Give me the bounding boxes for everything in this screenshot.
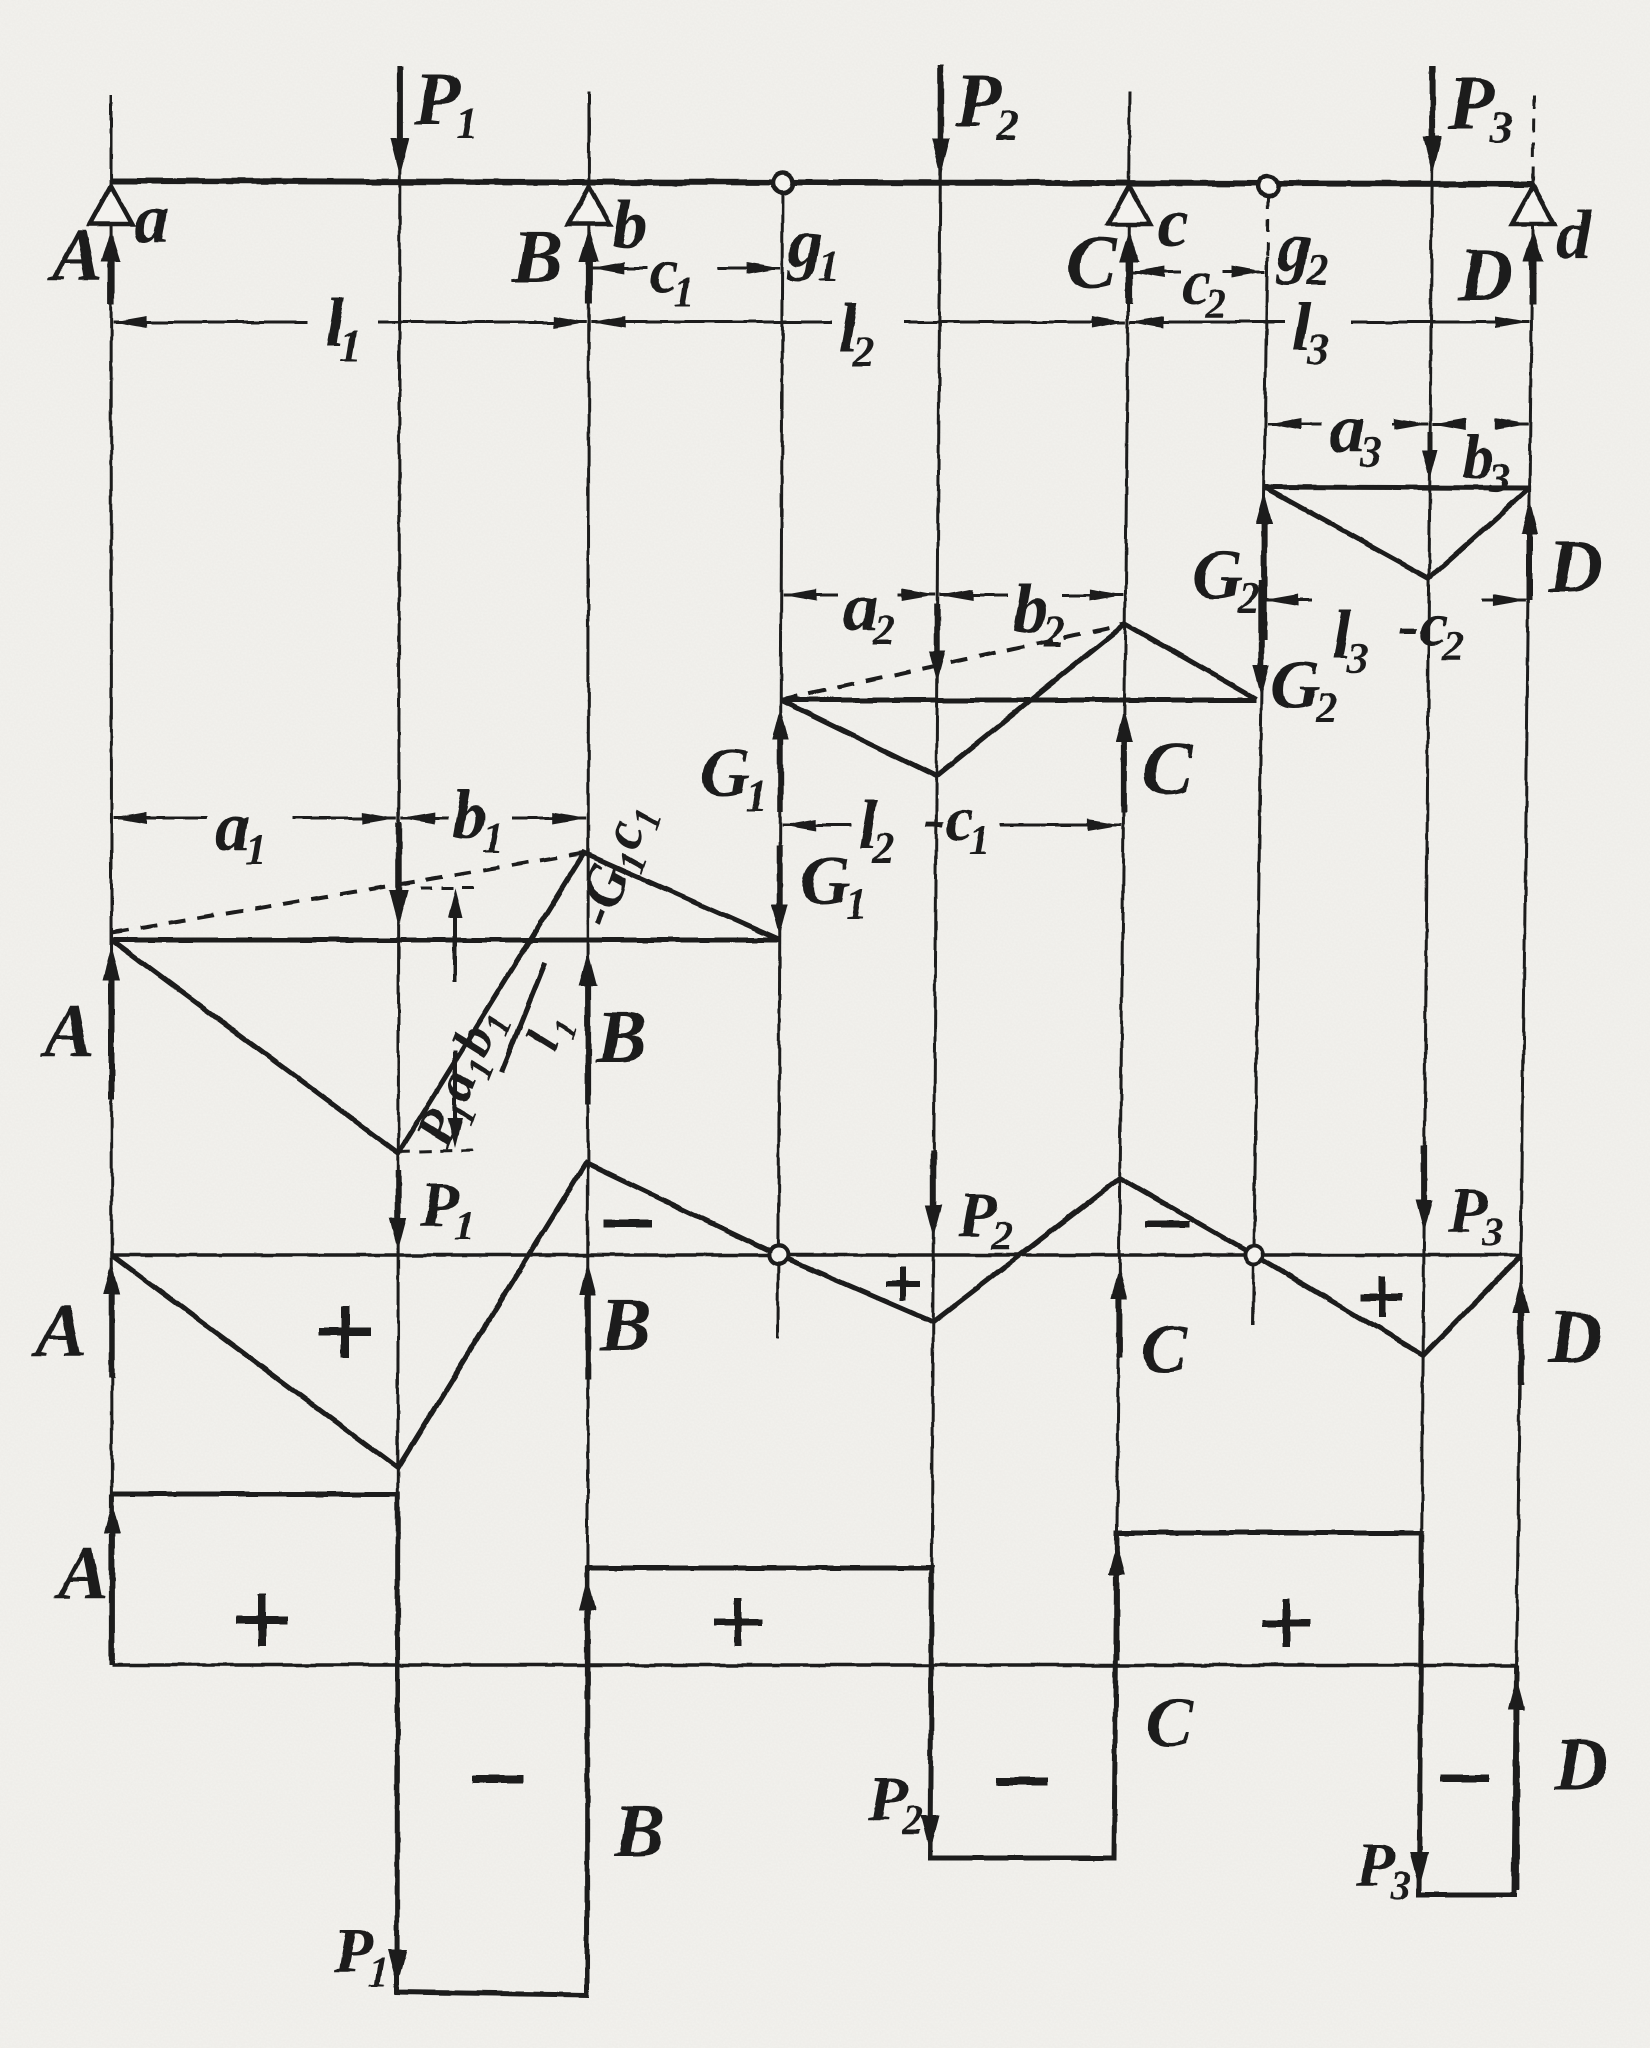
label D (1457, 233, 1513, 317)
label B shear (613, 1789, 665, 1873)
label A moment (32, 1289, 87, 1373)
label c (1158, 185, 1189, 262)
construction line g2 (dashed below hinge) (1253, 196, 1268, 1325)
load G2 down on span 2 (1253, 580, 1270, 697)
dimension l2-c1 (782, 783, 1121, 872)
sign - shear3 (1441, 1775, 1489, 1782)
svg-text:B: B (613, 1789, 665, 1873)
dimension c2 (1130, 247, 1265, 328)
reaction D on span 3 (1521, 500, 1538, 600)
load P3 moment (1416, 1145, 1503, 1256)
svg-text:C: C (1066, 221, 1118, 305)
label G1 left (700, 735, 768, 820)
svg-text:b: b (612, 187, 647, 264)
label D span3 (1547, 525, 1603, 609)
load P3 shear (1355, 1829, 1429, 1910)
svg-text:D: D (1547, 1295, 1603, 1379)
hinge g2 (1258, 176, 1278, 196)
span 3 moment triangle (1264, 487, 1530, 578)
svg-text:D: D (1457, 233, 1513, 317)
label C moment (1141, 1311, 1189, 1388)
sign + P3 moment (1361, 1276, 1403, 1318)
load P2 moment (925, 1150, 1013, 1260)
dimension l1 (113, 285, 587, 370)
load P2 (931, 59, 1019, 176)
construction line B (587, 92, 589, 1995)
reaction A moment (103, 1262, 120, 1378)
sign - C moment (1145, 1221, 1189, 1228)
sign + P2 moment (886, 1267, 920, 1301)
label C span2 (1142, 727, 1194, 811)
label b (612, 187, 647, 264)
label G2 right (1270, 647, 1338, 732)
label g2 (1275, 209, 1329, 294)
moment baseline (112, 1253, 1521, 1257)
dimension a2 (783, 569, 936, 654)
span 1 moment diagram (112, 853, 780, 1153)
load P1 (390, 57, 478, 176)
svg-text:C: C (1146, 1685, 1194, 1762)
dimension c1 (591, 235, 781, 316)
hinge g1 (773, 173, 793, 193)
label a (134, 181, 169, 258)
reaction C on span 2 (1116, 710, 1133, 812)
reaction C shear (1108, 1543, 1125, 1660)
load G1 down on span 1 (771, 845, 788, 936)
span 3 beam (1264, 487, 1530, 488)
span 2 closing line (dashed) (781, 624, 1125, 700)
reaction D moment (1512, 1280, 1529, 1385)
label D moment (1547, 1295, 1603, 1379)
svg-text:A: A (48, 213, 103, 297)
support D (1512, 186, 1554, 304)
label C shear (1146, 1685, 1194, 1762)
label B moment (599, 1283, 651, 1367)
svg-text:A: A (32, 1289, 87, 1373)
span 2 beam (781, 698, 1256, 703)
reaction B on span 1 (579, 952, 597, 1105)
svg-text:C: C (1142, 727, 1194, 811)
dimension a1 (114, 789, 397, 874)
peak label -G1c1 (561, 793, 671, 937)
span 2 moment diagram (781, 624, 1256, 776)
svg-text:B: B (599, 1283, 651, 1367)
reaction G1 up on span 2 (772, 708, 789, 812)
label B span1 (595, 995, 647, 1079)
svg-text:D: D (1547, 525, 1603, 609)
sign + shear3 (1262, 1599, 1310, 1647)
dimension l3-c2 (1265, 589, 1527, 682)
label A span1 (40, 989, 95, 1073)
shear left edge A (109, 1494, 114, 1665)
label B (511, 215, 563, 299)
load arrow P2 on span 2 (929, 604, 946, 682)
label g1 (786, 205, 840, 290)
sign + span1 moment (319, 1306, 371, 1358)
load arrow P3 on span 3 (1422, 432, 1438, 480)
shear diagram outline (112, 1494, 1517, 1995)
label d (1556, 197, 1592, 274)
sign - B moment (604, 1219, 652, 1227)
reaction C moment (1111, 1266, 1128, 1358)
support B (568, 186, 610, 304)
reaction B shear (579, 1578, 596, 1700)
load P1 moment (390, 1169, 475, 1250)
sign - shear1 (472, 1775, 524, 1783)
dimension l3 (1130, 289, 1530, 374)
svg-text:A: A (54, 1531, 109, 1615)
support A (90, 186, 132, 304)
dimension b3 (1432, 418, 1528, 502)
support C (1108, 186, 1150, 304)
zero point circle at g2 (1245, 1246, 1263, 1264)
svg-text:D: D (1553, 1723, 1609, 1807)
construction line P2 (930, 64, 941, 1858)
sign + shear2 (714, 1598, 762, 1646)
construction line P1 (397, 66, 400, 1992)
reaction A on span 1 (103, 946, 121, 1100)
beam A-D (111, 181, 1534, 184)
dimension b2 (940, 571, 1124, 656)
load arrow P1 on span 1 (389, 822, 408, 926)
svg-text:a: a (134, 181, 169, 258)
label G2 left (1192, 537, 1260, 622)
svg-text:A: A (40, 989, 95, 1073)
dimension b1 (401, 777, 586, 862)
construction line g1 (778, 183, 783, 1338)
label G1 right (800, 843, 868, 928)
load P3 (1423, 61, 1512, 174)
sign + shear1 (236, 1594, 288, 1646)
label A (48, 213, 103, 297)
construction line D (dashed above beam) (1514, 95, 1534, 1895)
reaction A shear (103, 1502, 120, 1660)
ordinate marks P1a1b1/l1 (398, 888, 478, 1152)
reaction B moment (579, 1262, 596, 1380)
label D shear (1553, 1723, 1609, 1807)
span 1 closing line (dashed) (112, 853, 585, 933)
construction line A (111, 95, 112, 1665)
load P1 shear (333, 1915, 407, 1996)
construction line C (1114, 92, 1130, 1860)
svg-text:d: d (1556, 197, 1592, 274)
sign - shear2 (996, 1777, 1048, 1785)
load P2 shear (867, 1763, 940, 1852)
svg-text:C: C (1141, 1311, 1189, 1388)
dimension a3 (1267, 391, 1428, 476)
label C (1066, 221, 1118, 305)
shear baseline (112, 1663, 1517, 1667)
reaction D shear (1508, 1678, 1525, 1890)
combined moment diagram (112, 1163, 1521, 1468)
svg-text:B: B (595, 995, 647, 1079)
reaction G2 up on span 3 (1256, 492, 1273, 640)
label A shear (54, 1531, 109, 1615)
dimension l2 (591, 291, 1126, 376)
fraction label P1a1b1/l1 (403, 937, 602, 1181)
span 1 beam (112, 938, 780, 943)
svg-text:B: B (511, 215, 563, 299)
construction line P3 (1419, 66, 1433, 1895)
zero point circle at g1 (769, 1246, 787, 1264)
